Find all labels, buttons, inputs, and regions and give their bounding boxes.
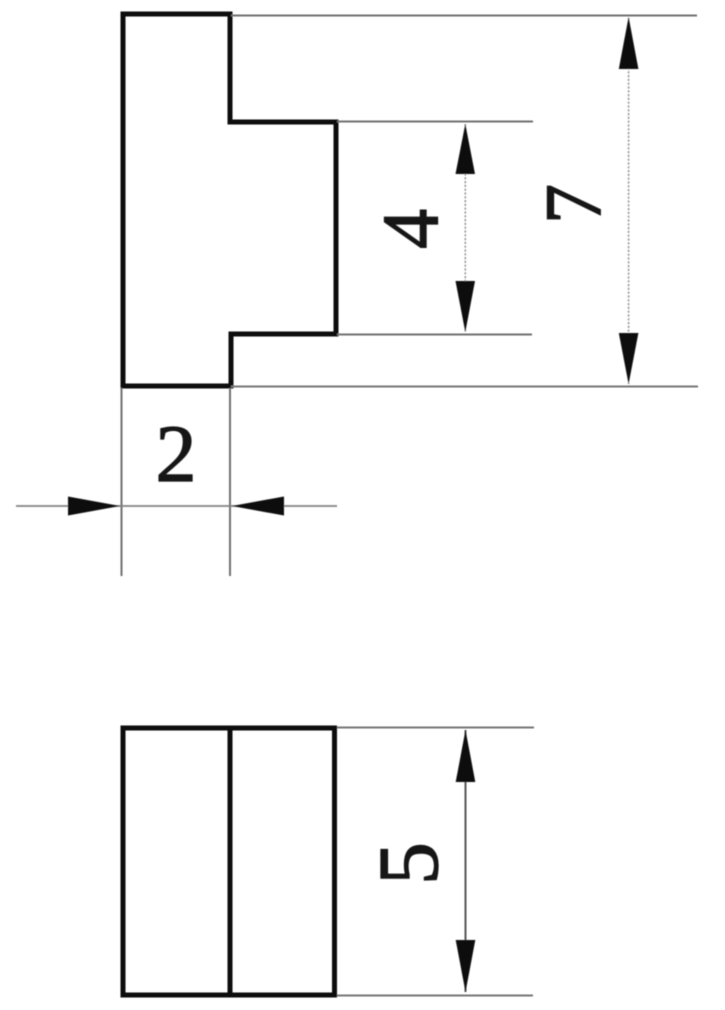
svg-text:2: 2 <box>156 408 197 499</box>
arrowhead dim7 bottom (points down) <box>619 333 639 384</box>
extension line right (for dim 2) <box>229 388 231 576</box>
extension line step bottom edge (for dim 4) <box>337 334 532 336</box>
arrowhead dim5 top (points up) <box>456 730 476 782</box>
side view middle edge <box>228 728 233 995</box>
svg-text:5: 5 <box>360 842 456 885</box>
extension line bottom edge (for dim 7) <box>231 386 698 388</box>
dimension line 7 (vertical dotted) <box>628 18 630 384</box>
arrowhead dim2 left (points right) <box>68 497 120 516</box>
arrowhead dim4 top (points up) <box>456 124 476 174</box>
dimension line 5 (vertical) <box>465 730 467 992</box>
extension line top edge (for dim 7) <box>231 15 697 17</box>
arrowhead dim4 bottom (points down) <box>456 281 476 332</box>
dimension line 2 (horizontal) <box>16 505 337 507</box>
svg-text:7: 7 <box>531 184 619 224</box>
side view rectangle <box>123 728 335 995</box>
extension line side-view top (for dim 5) <box>337 727 534 729</box>
extension line step top edge (for dim 4) <box>337 121 533 123</box>
dimension line 4 (vertical dotted) <box>464 124 466 332</box>
front view outline (stepped T-profile) <box>123 14 336 386</box>
arrowhead dim7 top (points up) <box>619 17 639 69</box>
extension line side-view bottom (for dim 5) <box>337 995 533 997</box>
extension line left (for dim 2) <box>121 388 123 576</box>
arrowhead dim2 right (points left) <box>232 497 284 516</box>
arrowhead dim5 bottom (points down) <box>456 940 476 992</box>
svg-text:4: 4 <box>367 209 455 249</box>
